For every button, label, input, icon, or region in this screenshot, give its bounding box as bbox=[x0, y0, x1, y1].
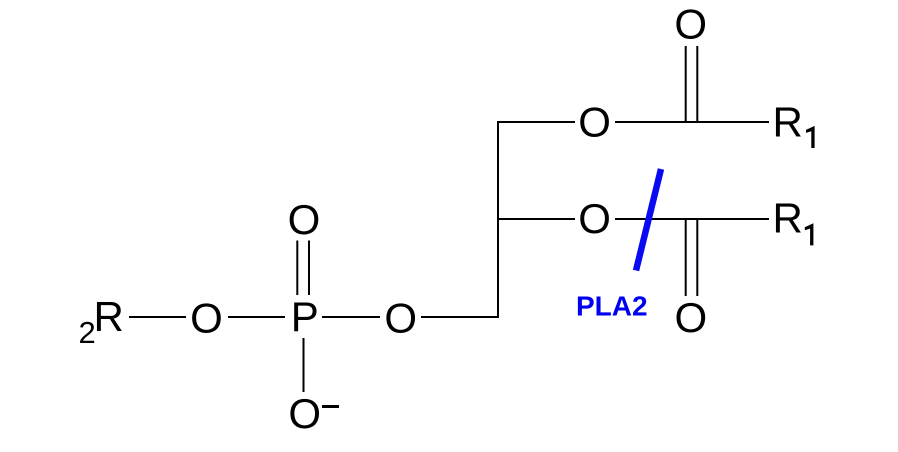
label PLA2 bbox=[576, 291, 648, 322]
ester oxygen O (sn-1) bbox=[578, 99, 611, 146]
svg-text:O: O bbox=[578, 195, 611, 242]
svg-text:O: O bbox=[578, 99, 611, 146]
wire C2 to ester O (sn-2) bbox=[497, 218, 575, 220]
carbonyl double bond C=O (sn-2) bbox=[686, 219, 698, 296]
P=O double bond bbox=[297, 241, 309, 296]
svg-text:O: O bbox=[190, 295, 223, 342]
carbonyl oxygen O (sn-1) bbox=[674, 1, 707, 48]
svg-text:PLA2: PLA2 bbox=[576, 291, 648, 322]
wire ester O to R1 (sn-2) bbox=[615, 218, 769, 220]
glycerol backbone vertical wire bbox=[497, 121, 499, 318]
carbonyl double bond C=O (sn-1) bbox=[686, 46, 698, 121]
label R1 (sn-2) bbox=[773, 195, 814, 246]
phosphorus P bbox=[291, 293, 319, 340]
wire ester O to R1 (sn-1) bbox=[615, 121, 769, 123]
label R1 (sn-1) bbox=[773, 99, 815, 149]
svg-text:O: O bbox=[288, 390, 321, 437]
svg-text:R: R bbox=[94, 293, 124, 340]
svg-text:O: O bbox=[674, 294, 707, 341]
svg-text:R: R bbox=[773, 195, 803, 242]
wire bridging O to glycerol C3 bbox=[421, 316, 499, 318]
PLA2 cleavage slash bbox=[636, 169, 661, 271]
wire P to bridging O bbox=[322, 316, 380, 318]
wire O to P bbox=[228, 316, 285, 318]
wire P to O minus bbox=[303, 338, 305, 392]
carbonyl oxygen O (sn-2) bbox=[674, 294, 707, 341]
bridging oxygen O (right of P) bbox=[384, 295, 417, 342]
wire C1 to ester O (sn-1) bbox=[497, 121, 575, 123]
anionic oxygen O- bbox=[288, 390, 339, 437]
phosphate ester oxygen O (left) bbox=[190, 295, 223, 342]
svg-text:P: P bbox=[291, 293, 319, 340]
label 2R (head group) bbox=[79, 293, 124, 350]
svg-text:R: R bbox=[773, 99, 803, 146]
ester oxygen O (sn-2) bbox=[578, 195, 611, 242]
svg-text:O: O bbox=[674, 1, 707, 48]
wire 2R to phosphate ester O bbox=[129, 316, 186, 318]
phosphoryl oxygen O (above P) bbox=[288, 196, 321, 243]
svg-text:O: O bbox=[288, 196, 321, 243]
svg-text:O: O bbox=[384, 295, 417, 342]
